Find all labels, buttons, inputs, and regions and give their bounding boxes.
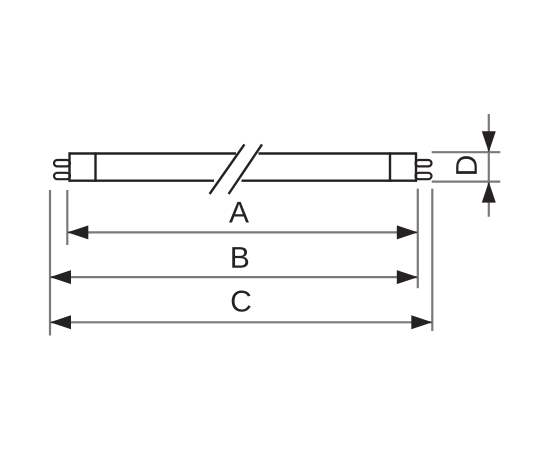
tube body outline (top and bottom walls with break gap)	[70, 154, 417, 181]
extension line D top (tube top)	[432, 151, 501, 153]
dimension line D (vertical with outside arrows)	[482, 114, 496, 217]
extension line left (cap face, for A)	[66, 190, 68, 245]
break symbol diagonal 1	[210, 144, 245, 194]
dimension line B	[50, 270, 418, 284]
left cap G5	[70, 152, 96, 182]
left pin 1	[54, 160, 70, 166]
label A	[229, 202, 249, 223]
break symbol diagonal 2	[229, 144, 262, 194]
label C	[232, 291, 251, 312]
label B	[232, 247, 248, 268]
dimension line A	[67, 225, 418, 239]
right pin 2	[416, 173, 432, 179]
right cap G5	[390, 152, 416, 182]
dimension line C	[50, 315, 432, 329]
extension line right (pin tips, for C)	[431, 189, 433, 331]
extension line right (cap face, for A and B)	[417, 189, 419, 289]
extension line D bottom (tube bottom)	[432, 181, 501, 183]
left pin 2	[54, 173, 70, 179]
extension line left (pin tips, for B and C)	[49, 190, 51, 336]
right pin 1	[416, 160, 432, 166]
label D (rotated)	[456, 156, 477, 174]
